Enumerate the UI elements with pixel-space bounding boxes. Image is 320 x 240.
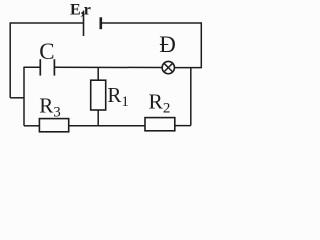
wire R1 top lead xyxy=(97,67,99,80)
wire outer-left vertical xyxy=(9,22,11,98)
wire left jog xyxy=(10,97,24,99)
wire inner-left vertical xyxy=(23,67,25,126)
svg-text:R1: R1 xyxy=(107,83,129,110)
svg-text:Đ: Đ xyxy=(159,32,176,57)
wire middle row to capacitor xyxy=(24,66,40,68)
wire R1 bottom lead xyxy=(97,110,99,126)
svg-text:R2: R2 xyxy=(149,89,171,116)
lamp Đ cross stroke 2 xyxy=(164,63,173,72)
wire top-left segment xyxy=(10,22,83,24)
resistor R1 body xyxy=(91,80,106,110)
lamp Đ circle xyxy=(162,61,174,73)
capacitor C left plate xyxy=(39,59,41,75)
resistor R3 body xyxy=(39,119,68,132)
wire bottom row middle segment xyxy=(69,125,145,127)
capacitor C right plate xyxy=(53,59,55,75)
svg-text:C: C xyxy=(39,39,54,64)
battery E,r long plate xyxy=(83,11,85,36)
svg-text:R3: R3 xyxy=(39,93,61,120)
battery E,r short plate xyxy=(100,17,103,29)
wire inner-right vertical xyxy=(190,68,192,126)
wire top-right segment xyxy=(101,22,202,24)
lamp Đ cross stroke 1 xyxy=(164,63,173,72)
svg-text:r: r xyxy=(84,2,91,19)
wire bottom row left segment xyxy=(24,125,39,127)
wire lamp to right edge xyxy=(174,67,201,69)
wire outer-right vertical xyxy=(200,22,202,68)
svg-text:E,: E, xyxy=(70,2,85,19)
wire bottom row right segment xyxy=(175,125,191,127)
wire middle row capacitor to lamp xyxy=(54,66,162,68)
resistor R2 body xyxy=(145,118,175,131)
